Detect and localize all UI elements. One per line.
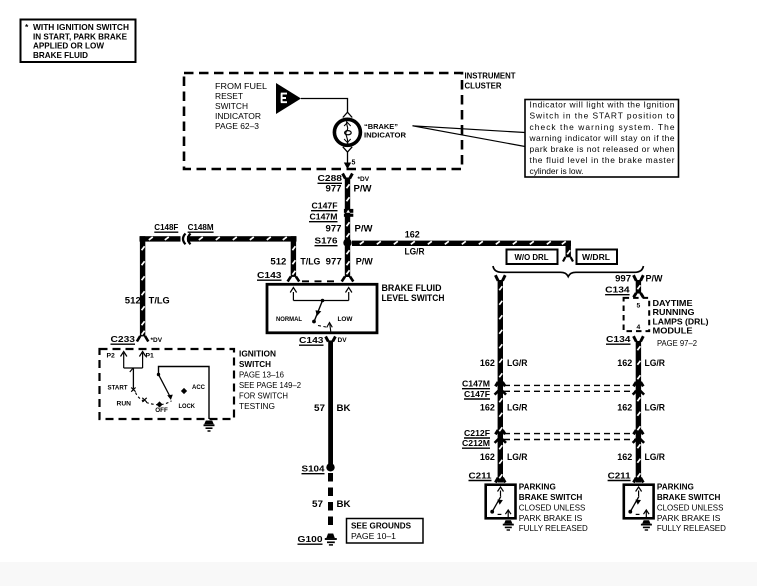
svg-text:5: 5 bbox=[637, 303, 641, 310]
wire 162 LG/R (S176 to options split) bbox=[352, 230, 573, 262]
svg-text:W/O DRL: W/O DRL bbox=[515, 253, 549, 262]
svg-text:PAGE 10–1: PAGE 10–1 bbox=[351, 532, 396, 541]
svg-text:977: 977 bbox=[326, 184, 342, 194]
note box: asterisk conditions bbox=[21, 20, 136, 63]
connector C147M/C147F (inline, both branches) bbox=[462, 379, 644, 400]
svg-text:DV: DV bbox=[338, 337, 348, 344]
svg-text:C134: C134 bbox=[605, 285, 630, 295]
svg-text:C147F: C147F bbox=[464, 389, 490, 399]
instrument cluster dashed box bbox=[184, 73, 462, 169]
svg-text:BRAKE FLUID: BRAKE FLUID bbox=[382, 283, 442, 293]
ignition switch side label bbox=[239, 350, 301, 412]
svg-text:ACC: ACC bbox=[192, 384, 205, 391]
svg-text:162: 162 bbox=[617, 403, 632, 413]
svg-text:FULLY RELEASED: FULLY RELEASED bbox=[657, 524, 726, 533]
connector C211 (right) bbox=[608, 470, 631, 480]
node: right branch top connector bbox=[634, 275, 644, 281]
svg-text:977: 977 bbox=[326, 224, 342, 234]
arrow E (from fuel reset switch indicator) bbox=[276, 83, 301, 114]
ground (right parking brake switch) bbox=[641, 520, 652, 530]
svg-text:Switch in the START position t: Switch in the START position to bbox=[530, 111, 675, 121]
svg-text:C143: C143 bbox=[257, 270, 282, 280]
svg-text:4: 4 bbox=[637, 324, 641, 331]
ground (ignition switch) bbox=[204, 421, 215, 432]
ground (left parking brake switch) bbox=[503, 520, 514, 530]
svg-text:PAGE 97–2: PAGE 97–2 bbox=[657, 339, 697, 348]
bottom gray strip bbox=[0, 562, 757, 586]
svg-text:LG/R: LG/R bbox=[507, 358, 528, 368]
connector C143 (bottom) bbox=[299, 335, 347, 345]
node: left branch top connector bbox=[495, 275, 505, 281]
svg-text:W/DRL: W/DRL bbox=[582, 253, 610, 262]
svg-text:P/W: P/W bbox=[646, 274, 664, 284]
options brace bbox=[493, 266, 643, 277]
wire 162 LG/R (left, C212M to C211) bbox=[480, 452, 528, 482]
wire 162 LG/R (left branch, brace to C147M) bbox=[480, 280, 528, 483]
svg-text:LOCK: LOCK bbox=[179, 403, 196, 410]
svg-text:SWITCH: SWITCH bbox=[239, 360, 271, 369]
svg-text:997: 997 bbox=[615, 274, 631, 284]
wire: E to indicator lamp bbox=[301, 99, 352, 118]
svg-text:P/W: P/W bbox=[355, 224, 374, 234]
svg-text:LG/R: LG/R bbox=[405, 246, 425, 256]
svg-text:LG/R: LG/R bbox=[645, 452, 666, 462]
svg-text:OFF: OFF bbox=[155, 407, 168, 414]
svg-text:PARK BRAKE IS: PARK BRAKE IS bbox=[657, 514, 721, 523]
svg-text:162: 162 bbox=[480, 358, 495, 368]
svg-text:C143: C143 bbox=[299, 335, 324, 345]
wire: lamp to C288, pin 5 bbox=[343, 147, 356, 170]
svg-text:PARKING: PARKING bbox=[519, 483, 556, 492]
svg-text:C288: C288 bbox=[318, 173, 343, 183]
svg-text:162: 162 bbox=[480, 452, 495, 462]
svg-text:*DV: *DV bbox=[151, 337, 163, 344]
svg-text:162: 162 bbox=[480, 403, 495, 413]
wire 162 LG/R (right, C134 to C147M) bbox=[617, 341, 665, 483]
labels 512 T/LG / 977 P/W above C143 bbox=[270, 256, 320, 266]
connector C134 (top) bbox=[605, 285, 630, 295]
svg-text:162: 162 bbox=[617, 358, 632, 368]
svg-text:C233: C233 bbox=[111, 334, 136, 344]
svg-text:S176: S176 bbox=[315, 236, 338, 246]
svg-text:warning indicator will stay on: warning indicator will stay on if the bbox=[529, 133, 675, 143]
see grounds note box bbox=[347, 519, 424, 544]
option box W/DRL bbox=[577, 250, 618, 265]
svg-text:FULLY RELEASED: FULLY RELEASED bbox=[519, 524, 588, 533]
ignition switch internals bbox=[107, 352, 210, 420]
parking brake switch (left) box bbox=[486, 485, 516, 519]
svg-text:BK: BK bbox=[337, 403, 352, 413]
svg-text:512: 512 bbox=[270, 256, 286, 266]
svg-text:LOW: LOW bbox=[338, 316, 354, 323]
svg-text:BK: BK bbox=[337, 499, 352, 509]
ignition switch dashed box bbox=[100, 349, 235, 419]
svg-text:SEE PAGE 149–2: SEE PAGE 149–2 bbox=[239, 381, 301, 390]
svg-text:RUN: RUN bbox=[117, 401, 132, 408]
connector C148F/C148M (inline on horizontal run) bbox=[154, 222, 213, 244]
svg-text:P/W: P/W bbox=[356, 256, 374, 266]
svg-text:FROM FUEL: FROM FUEL bbox=[215, 81, 267, 91]
svg-text:5: 5 bbox=[352, 160, 356, 167]
svg-text:TESTING: TESTING bbox=[239, 402, 275, 411]
svg-text:SEE GROUNDS: SEE GROUNDS bbox=[351, 522, 411, 531]
svg-text:BRAKE SWITCH: BRAKE SWITCH bbox=[519, 493, 583, 502]
svg-text:INDICATOR: INDICATOR bbox=[364, 133, 406, 140]
svg-text:NORMAL: NORMAL bbox=[276, 316, 302, 323]
wire 162 LG/R (left, C147M to C212F) bbox=[480, 403, 528, 435]
svg-text:LG/R: LG/R bbox=[645, 358, 666, 368]
ground G100 bbox=[298, 534, 337, 545]
wire 512 T/LG (C148 run) bbox=[125, 236, 299, 336]
svg-text:check the warning system. The: check the warning system. The bbox=[530, 122, 675, 132]
brake fluid level switch internals bbox=[276, 288, 353, 333]
option box W/O DRL bbox=[507, 250, 558, 265]
parking brake switch (right) label bbox=[657, 483, 726, 533]
svg-text:C212M: C212M bbox=[462, 438, 490, 448]
note: from fuel reset switch indicator bbox=[215, 81, 267, 131]
svg-text:PAGE 62–3: PAGE 62–3 bbox=[215, 121, 259, 131]
svg-text:LG/R: LG/R bbox=[645, 403, 666, 413]
parking brake switch (right) internals bbox=[628, 487, 649, 518]
DRL module dashed box bbox=[624, 298, 650, 331]
svg-text:PARKING: PARKING bbox=[657, 483, 694, 492]
svg-text:INSTRUMENT: INSTRUMENT bbox=[465, 71, 517, 81]
svg-text:PARK BRAKE IS: PARK BRAKE IS bbox=[519, 514, 583, 523]
brake fluid level switch box bbox=[267, 284, 377, 333]
wire 162 LG/R (right, C212M to C211) bbox=[617, 452, 665, 482]
wire insulation hatch marks bbox=[142, 184, 641, 478]
connector C147F/C147M (inline, center) bbox=[309, 201, 353, 222]
svg-text:C148M: C148M bbox=[188, 222, 214, 232]
parking brake switch (right) box bbox=[624, 485, 654, 519]
svg-text:C147F: C147F bbox=[312, 201, 338, 211]
instrument cluster label bbox=[465, 71, 517, 91]
svg-text:CLOSED UNLESS: CLOSED UNLESS bbox=[657, 504, 724, 513]
splice S104 bbox=[302, 463, 335, 474]
svg-text:BRAKE FLUID: BRAKE FLUID bbox=[33, 50, 88, 60]
svg-text:T/LG: T/LG bbox=[300, 256, 320, 266]
svg-text:RESET: RESET bbox=[215, 91, 243, 101]
svg-text:162: 162 bbox=[617, 452, 632, 462]
svg-text:“BRAKE”: “BRAKE” bbox=[364, 124, 398, 131]
svg-text:P2: P2 bbox=[107, 353, 116, 360]
svg-text:the fluid level in the brake m: the fluid level in the brake master bbox=[530, 155, 675, 165]
svg-text:977: 977 bbox=[326, 256, 342, 266]
svg-text:P/W: P/W bbox=[354, 184, 373, 194]
svg-text:C147M: C147M bbox=[462, 379, 490, 389]
brake fluid level switch label bbox=[382, 283, 445, 303]
wire 997 P/W (brace to C134) bbox=[615, 274, 663, 298]
svg-text:T/LG: T/LG bbox=[149, 296, 170, 306]
svg-text:C134: C134 bbox=[606, 334, 631, 344]
svg-text:CLOSED UNLESS: CLOSED UNLESS bbox=[519, 504, 586, 513]
svg-text:BRAKE SWITCH: BRAKE SWITCH bbox=[657, 493, 721, 502]
svg-text:C212F: C212F bbox=[464, 428, 490, 438]
parking brake switch (left) internals bbox=[490, 487, 511, 518]
svg-text:*DV: *DV bbox=[358, 176, 370, 183]
svg-text:LEVEL SWITCH: LEVEL SWITCH bbox=[382, 293, 445, 303]
svg-text:cylinder is low.: cylinder is low. bbox=[530, 166, 584, 176]
svg-text:C148F: C148F bbox=[154, 222, 178, 232]
connector C211 (left) bbox=[469, 470, 492, 480]
svg-text:G100: G100 bbox=[298, 534, 323, 544]
svg-text:FOR SWITCH: FOR SWITCH bbox=[239, 392, 288, 401]
svg-text:PAGE 13–16: PAGE 13–16 bbox=[239, 371, 284, 380]
svg-text:C211: C211 bbox=[608, 470, 631, 480]
splice S176 bbox=[315, 236, 352, 247]
wire 977 P/W (C288 to C147F) bbox=[326, 178, 373, 278]
svg-text:57: 57 bbox=[312, 499, 323, 509]
callout pointer lines bbox=[413, 126, 526, 147]
svg-text:C211: C211 bbox=[469, 470, 492, 480]
svg-text:LG/R: LG/R bbox=[507, 452, 528, 462]
svg-text:START: START bbox=[108, 385, 129, 392]
svg-text:Indicator will light with the: Indicator will light with the Ignition bbox=[530, 100, 675, 110]
svg-text:RUNNING: RUNNING bbox=[653, 308, 695, 317]
connector C143 (top) bbox=[257, 270, 338, 281]
connector C134 (bottom) bbox=[606, 334, 643, 344]
svg-text:DAYTIME: DAYTIME bbox=[653, 299, 694, 308]
svg-text:CLUSTER: CLUSTER bbox=[465, 81, 502, 91]
wire 57 BK (C143 to S104) bbox=[314, 341, 351, 465]
svg-text:MODULE: MODULE bbox=[653, 327, 694, 336]
svg-text:P1: P1 bbox=[146, 353, 155, 360]
svg-text:57: 57 bbox=[314, 403, 325, 413]
wire 977 P/W (S176 to C143) bbox=[326, 256, 374, 281]
lamp label bbox=[364, 124, 406, 140]
wire 162 LG/R (right, C147M to C212F) bbox=[617, 403, 665, 435]
wire 977 P/W (C147 to S176) bbox=[326, 224, 374, 234]
svg-text:IGNITION: IGNITION bbox=[239, 350, 276, 359]
wire 57 BK dashed (S104 to G100) bbox=[312, 473, 351, 531]
svg-text:512: 512 bbox=[125, 296, 141, 306]
"BRAKE" indicator lamp bbox=[334, 119, 360, 145]
connector C233 bbox=[111, 334, 163, 344]
connector C288 bbox=[318, 173, 370, 183]
callout note box bbox=[525, 100, 679, 178]
svg-text:LG/R: LG/R bbox=[507, 403, 528, 413]
connector C212F/C212M (inline, both branches) bbox=[462, 428, 644, 448]
svg-text:S104: S104 bbox=[302, 464, 325, 474]
svg-text:162: 162 bbox=[405, 230, 420, 240]
svg-text:SWITCH: SWITCH bbox=[215, 101, 248, 111]
svg-text:LAMPS (DRL): LAMPS (DRL) bbox=[653, 317, 709, 326]
DRL module label bbox=[653, 299, 709, 348]
svg-text:park brake is not released or: park brake is not released or when bbox=[530, 144, 675, 154]
svg-text:INDICATOR: INDICATOR bbox=[215, 111, 261, 121]
parking brake switch (left) label bbox=[519, 483, 588, 533]
svg-text:C147M: C147M bbox=[310, 212, 338, 222]
